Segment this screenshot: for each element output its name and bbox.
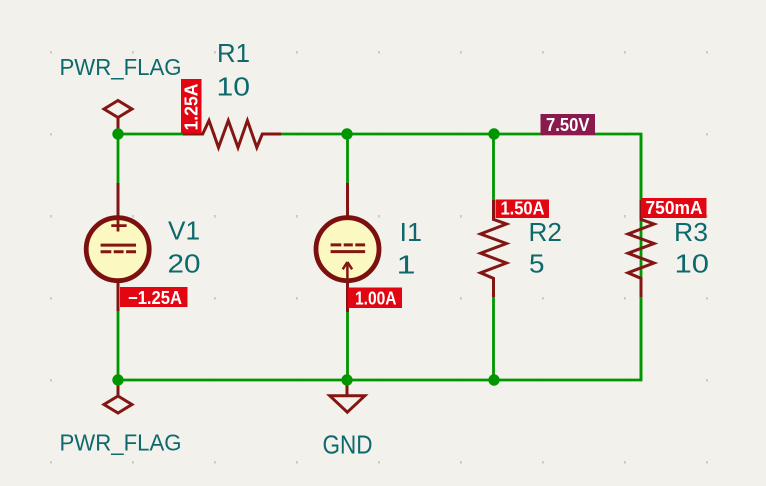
- svg-text:7.50V: 7.50V: [546, 115, 590, 135]
- svg-text:1.00A: 1.00A: [355, 288, 397, 308]
- svg-text:R3: R3: [674, 217, 708, 247]
- svg-text:10: 10: [217, 72, 251, 102]
- svg-text:1.25A: 1.25A: [181, 84, 201, 131]
- svg-text:1.50A: 1.50A: [501, 198, 545, 218]
- svg-text:PWR_FLAG: PWR_FLAG: [60, 54, 182, 80]
- svg-text:R1: R1: [217, 38, 250, 68]
- svg-text:20: 20: [168, 248, 201, 278]
- svg-text:1: 1: [397, 249, 416, 279]
- svg-text:PWR_FLAG: PWR_FLAG: [60, 430, 182, 456]
- svg-text:750mA: 750mA: [646, 198, 703, 218]
- svg-text:R2: R2: [529, 217, 563, 247]
- svg-text:GND: GND: [323, 430, 373, 460]
- svg-text:I1: I1: [400, 217, 423, 247]
- svg-text:10: 10: [675, 248, 710, 278]
- svg-text:−1.25A: −1.25A: [128, 288, 182, 308]
- svg-text:V1: V1: [168, 215, 200, 245]
- svg-text:5: 5: [529, 248, 545, 278]
